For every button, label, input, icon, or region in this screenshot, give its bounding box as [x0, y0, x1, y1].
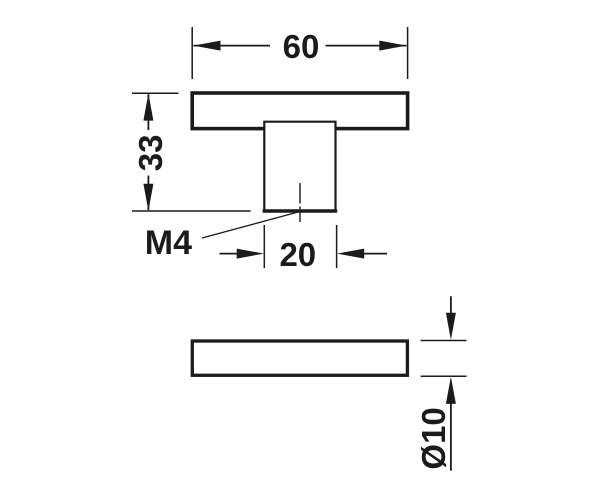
dimension D10: lower arrow tail — [450, 400, 452, 471]
knob front view: top bar outline — [192, 93, 407, 129]
svg-text:M4: M4 — [145, 224, 192, 262]
dimension 33: bottom arrowhead — [143, 184, 153, 211]
dimension 60: dimension line right segment — [326, 45, 407, 47]
dimension 20: left extension line — [263, 225, 265, 268]
dimension 20: right arrowhead (pointing left) — [337, 249, 364, 259]
dimension 20: right extension line — [336, 225, 338, 268]
svg-text:60: 60 — [283, 28, 320, 65]
dimension 60: right extension line — [407, 27, 409, 79]
dimension D10: bottom extension line — [421, 375, 467, 377]
dimension 33: bottom extension line — [132, 210, 251, 212]
svg-text:Ø10: Ø10 — [415, 407, 452, 469]
dimension 60: left extension line — [191, 27, 193, 79]
dimension D10: upper arrowhead (pointing down) — [446, 313, 456, 340]
centerline of M4 thread — [299, 183, 301, 204]
dimension 33: dimension line lower segment — [147, 176, 149, 211]
dimension 33: top arrowhead — [143, 93, 153, 120]
svg-text:33: 33 — [132, 135, 169, 172]
dimension 20: left arrowhead (pointing right) — [237, 249, 264, 259]
dimension D10: lower arrowhead (pointing up) — [446, 377, 456, 404]
knob side view: bar outline — [192, 341, 407, 375]
svg-text:20: 20 — [279, 236, 316, 273]
dimension 60: dimension line left segment — [193, 45, 270, 47]
M4 leader line — [202, 212, 300, 239]
dimension D10: top extension line — [421, 340, 467, 342]
knob front view: stem (base) outline — [264, 122, 335, 211]
dimension 33: top extension line — [132, 92, 179, 94]
dimension 60: left arrowhead — [193, 41, 220, 51]
dimension 20: right arrow tail — [361, 253, 387, 255]
dimension D10: upper arrow tail — [450, 296, 452, 318]
dimension 33: dimension line upper segment — [147, 94, 149, 130]
dimension 20: left arrow tail — [220, 253, 241, 255]
knob front view: stem bottom edge — [263, 209, 338, 213]
dimension 60: right arrowhead — [379, 41, 406, 51]
